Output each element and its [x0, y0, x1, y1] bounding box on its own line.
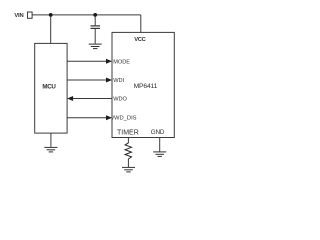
ground (GND pin) — [153, 152, 166, 157]
wire WDI — [67, 79, 107, 81]
svg-text:GND: GND — [151, 129, 165, 136]
wire VCC drop — [140, 15, 142, 33]
arrow into MCU (WDO) — [67, 96, 73, 101]
wire MCU ground — [50, 133, 52, 147]
wire resistor to ground — [127, 159, 129, 167]
wire TIMER — [127, 138, 129, 144]
arrow into WD_DIS pin — [106, 115, 112, 120]
svg-text:VCC: VCC — [134, 37, 146, 43]
resistor R1 (TIMER) — [125, 143, 131, 159]
wire capacitor branch — [94, 15, 96, 26]
MCU block — [35, 43, 67, 133]
wire capacitor to ground — [94, 29, 96, 44]
wire WD_DIS — [67, 117, 107, 119]
node junction at capacitor branch — [93, 13, 97, 17]
arrow into MODE pin — [106, 59, 112, 64]
ground (MCU) — [44, 147, 57, 152]
IC U1 MP6411 block — [112, 32, 174, 137]
terminal VIN square — [28, 12, 33, 18]
wire GND pin — [159, 138, 161, 152]
svg-text:MODE: MODE — [113, 59, 130, 65]
wire WDO — [72, 98, 113, 100]
capacitor C1 plates — [91, 26, 101, 29]
svg-text:MCU: MCU — [42, 84, 56, 91]
ground (TIMER resistor) — [122, 167, 135, 172]
wire MCU supply drop — [50, 15, 52, 44]
wire VIN rail — [32, 14, 140, 16]
arrow into WDI pin — [106, 78, 112, 83]
svg-text:VIN: VIN — [14, 13, 23, 19]
ground (capacitor) — [89, 44, 102, 49]
svg-text:MP6411: MP6411 — [134, 83, 158, 90]
wire MODE — [67, 60, 107, 62]
node junction at MCU drop — [49, 13, 53, 17]
svg-text:WDO: WDO — [113, 97, 127, 103]
svg-text:TIMER: TIMER — [117, 129, 139, 136]
svg-text:/WD_DIS: /WD_DIS — [112, 115, 136, 121]
svg-text:WDI: WDI — [113, 78, 124, 84]
